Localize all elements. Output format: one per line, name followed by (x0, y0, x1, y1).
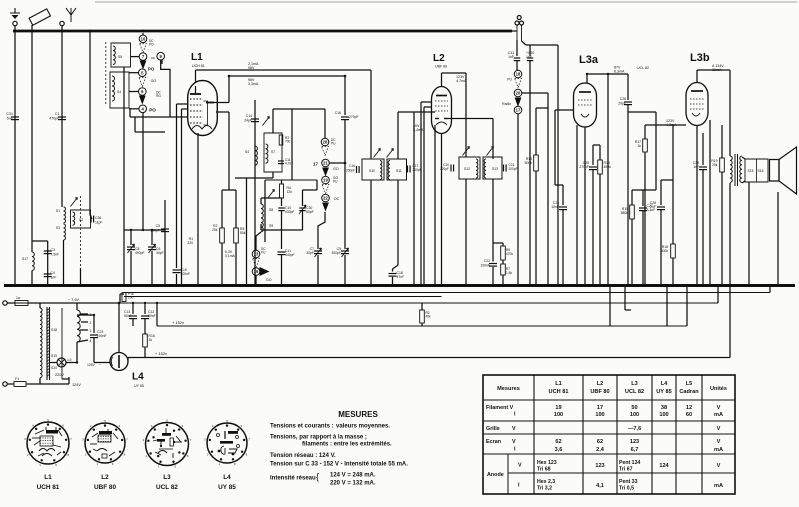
svg-text:100: 100 (595, 412, 604, 418)
svg-text:L1: L1 (191, 52, 203, 63)
wire secondary bottom (76, 342, 78, 362)
capacitor C36 (91, 216, 102, 225)
capacitor C31 (514, 40, 520, 61)
svg-text:1k: 1k (637, 144, 641, 148)
svg-text:19: 19 (323, 178, 328, 183)
svg-text:UCL 82: UCL 82 (637, 66, 649, 70)
wire T1 primary top (370, 70, 372, 159)
wire grid L3a (555, 110, 574, 185)
wire transformer B+ (729, 183, 731, 358)
wire (666, 286, 668, 327)
frame top edge (95, 1, 797, 3)
junction (702, 284, 705, 287)
junction (255, 284, 258, 287)
wire (135, 117, 165, 132)
switch contact 17 (514, 106, 522, 114)
table grid (483, 375, 735, 494)
junction (644, 284, 647, 287)
svg-text:47nF: 47nF (397, 275, 405, 279)
svg-text:UCL 82: UCL 82 (625, 389, 644, 395)
svg-text:124 V = 248 mA.: 124 V = 248 mA. (330, 473, 376, 479)
capacitor C26 20pF (618, 74, 632, 286)
wire node (32, 240, 48, 242)
svg-text:20pF: 20pF (618, 102, 626, 106)
svg-text:440pF: 440pF (285, 253, 295, 257)
label 124V (72, 383, 81, 387)
label 6,3V (225, 250, 236, 258)
label GO (266, 278, 272, 282)
wire (625, 286, 631, 311)
wire oscillator net (273, 109, 325, 180)
tube socket L1 UCH81 (24, 418, 72, 467)
junction (142, 284, 145, 287)
ferrite rod antenna (29, 9, 50, 25)
switch contact 19 (322, 176, 339, 184)
svg-text:6,7: 6,7 (631, 447, 639, 453)
junction (547, 284, 550, 287)
svg-text:270pF: 270pF (579, 165, 589, 169)
svg-text:Tri 68: Tri 68 (537, 467, 551, 473)
svg-text:mA: mA (714, 447, 723, 453)
svg-text:~ 7,6V: ~ 7,6V (68, 298, 80, 302)
junction (89, 30, 92, 33)
label GO (333, 167, 339, 171)
resistor R16 1k (143, 330, 155, 358)
trimmer arrow (71, 198, 78, 207)
wire S2 box bottom (80, 268, 82, 286)
junction (164, 284, 167, 287)
svg-text:Ecran: Ecran (486, 439, 501, 445)
junction (535, 284, 538, 287)
svg-text:Pent 134: Pent 134 (619, 460, 640, 466)
wire (77, 314, 94, 316)
wire L3b anode up (697, 70, 730, 83)
mains terminal 2 (3, 382, 7, 386)
table header row (497, 381, 727, 395)
tube L3a cathode hook (581, 114, 589, 117)
svg-text:L4: L4 (661, 381, 668, 387)
label Radio (502, 102, 511, 106)
label C30 1nF (526, 51, 534, 59)
wire T1 secondary bottom (393, 180, 399, 272)
capacitor C3 (44, 248, 59, 257)
label GO (151, 79, 157, 83)
label L3a (579, 54, 599, 66)
svg-text:1nF: 1nF (693, 165, 699, 169)
tube L2 diode plates (435, 118, 448, 120)
svg-text:Intensité réseau: Intensité réseau (270, 476, 316, 482)
tube L3b cathode hook (692, 113, 700, 116)
top bus wire (13, 30, 512, 33)
label L3b (690, 52, 710, 64)
wire L4 anode up (118, 303, 120, 353)
wire (129, 108, 131, 117)
svg-text:UBF 80: UBF 80 (435, 65, 447, 69)
junction (14, 284, 17, 287)
svg-text:450k: 450k (604, 165, 612, 169)
svg-text:+ 152v: + 152v (172, 320, 184, 325)
coil box S2 (71, 210, 91, 228)
svg-text:L4: L4 (132, 372, 144, 383)
svg-text:200pF: 200pF (346, 169, 355, 173)
switch wiper dashed (322, 185, 329, 194)
svg-text:Tension réseau : 124 V.: Tension réseau : 124 V. (270, 453, 336, 459)
switch wiper dashed (515, 79, 522, 88)
svg-text:UCL 82: UCL 82 (156, 484, 178, 491)
svg-text:L2: L2 (101, 474, 109, 481)
label +152V lower (155, 351, 167, 356)
switch wiper dashed (253, 259, 260, 268)
junction (245, 284, 248, 287)
svg-text:470k: 470k (506, 252, 513, 256)
svg-text:S2: S2 (79, 218, 83, 222)
wire (222, 189, 236, 191)
svg-text:S16: S16 (758, 169, 764, 173)
wire (536, 107, 548, 109)
resistor R21 40k (420, 303, 431, 326)
svg-text:C4: C4 (51, 271, 55, 275)
capacitor C16 270pF (335, 76, 359, 163)
svg-text:PU: PU (507, 78, 512, 82)
svg-text:123: 123 (630, 439, 639, 445)
junction (492, 284, 495, 287)
mains terminal 1 (3, 301, 7, 305)
svg-text:V: V (717, 405, 721, 411)
svg-text:24pF: 24pF (244, 119, 252, 123)
capacitor C30 (527, 45, 533, 61)
coil S9 (261, 218, 273, 232)
oscillator box (264, 133, 282, 172)
output transformer core (735, 154, 738, 186)
junction (344, 284, 347, 287)
label 17 (313, 162, 318, 167)
switch wiper (139, 96, 146, 105)
variable capacitor C8 (127, 230, 145, 286)
junction (180, 284, 183, 287)
svg-text:UCH 81: UCH 81 (192, 64, 205, 68)
svg-text:L3b: L3b (690, 52, 710, 64)
antenna symbol (66, 8, 76, 22)
svg-text:123: 123 (595, 463, 604, 469)
junction (672, 284, 675, 287)
junction (434, 284, 437, 287)
capacitor C11 box (278, 158, 293, 166)
resistor R18 500k (661, 125, 676, 286)
ground bus wire (4, 284, 795, 287)
capacitor C23 100uF (90, 315, 107, 363)
svg-text:PU: PU (261, 251, 266, 255)
svg-text:98V: 98V (248, 66, 255, 70)
tube L3b anode (691, 90, 703, 92)
switch contact 4 (139, 105, 156, 113)
wire T1 primary bottom (370, 180, 372, 286)
svg-text:22: 22 (323, 196, 328, 201)
wire T2 primary bottom (465, 179, 467, 286)
junction (440, 284, 443, 287)
fuse F1 (14, 377, 26, 387)
wire mains (7, 302, 120, 304)
svg-text:50nF: 50nF (148, 314, 156, 318)
wire (235, 177, 247, 179)
transformer secondary coil (77, 303, 80, 342)
transformer box edge (61, 308, 63, 379)
svg-text:40k: 40k (426, 315, 432, 319)
junction (696, 284, 699, 287)
svg-text:100pF: 100pF (150, 229, 160, 233)
label L2 socket (94, 474, 116, 491)
switch contact 13 (252, 247, 266, 258)
svg-text:L5: L5 (68, 358, 72, 362)
switch contact 5 (139, 69, 147, 77)
junction (660, 284, 663, 287)
coil S3 (56, 224, 66, 240)
wire (593, 144, 600, 146)
svg-text:220: 220 (187, 241, 193, 245)
svg-text:L1: L1 (555, 381, 562, 387)
svg-text:16: 16 (254, 269, 259, 274)
svg-text:13: 13 (254, 252, 259, 257)
coil S4 osc (245, 146, 258, 165)
junction (344, 75, 347, 78)
wire osc box bottom (247, 172, 274, 178)
tube L1 anode hexode (190, 86, 201, 94)
svg-text:124V: 124V (72, 383, 81, 387)
capacitor C7 30pF (306, 212, 325, 286)
junction (729, 284, 732, 287)
junction (562, 284, 565, 287)
svg-text:GO: GO (266, 278, 272, 282)
svg-text:Pent 33: Pent 33 (619, 479, 638, 485)
svg-text:38: 38 (661, 405, 667, 411)
svg-text:C26: C26 (620, 97, 626, 101)
wire switch drop (142, 113, 144, 230)
junction (156, 302, 158, 304)
resistor R17 1k (635, 125, 648, 286)
svg-text:100: 100 (128, 296, 134, 300)
switch contact 7 (139, 53, 147, 61)
switch wiper dashed (322, 147, 329, 156)
svg-text:oo: oo (151, 56, 155, 60)
svg-text:C22: C22 (484, 259, 490, 263)
svg-text:L3: L3 (163, 474, 171, 481)
svg-text:UCH 81: UCH 81 (549, 389, 569, 395)
text measurements notes (270, 424, 408, 487)
junction (721, 284, 724, 287)
wire (161, 60, 163, 64)
wire (609, 286, 611, 327)
wire (517, 61, 518, 70)
svg-text:2nF: 2nF (650, 205, 656, 209)
tube L1 grid3 box (204, 101, 208, 125)
svg-text:V: V (512, 426, 516, 432)
svg-text:S7: S7 (271, 150, 275, 154)
svg-text:GO: GO (333, 167, 339, 171)
switch contact 16 (252, 268, 260, 276)
svg-text:Grille: Grille (486, 426, 500, 432)
trimmer arrow (487, 147, 494, 156)
wire (502, 260, 504, 264)
svg-text:C14: C14 (246, 114, 252, 118)
svg-text:L2: L2 (433, 53, 445, 64)
label L1 (191, 52, 203, 63)
switch contact 9 (151, 52, 165, 60)
switch wiper (322, 203, 329, 212)
svg-text:S20: S20 (51, 366, 57, 370)
svg-text:L3: L3 (631, 381, 638, 387)
junction (502, 284, 505, 287)
coil box S4 (110, 72, 129, 108)
rectifier tube L4 (110, 353, 128, 371)
svg-text:C36: C36 (95, 216, 101, 220)
junction (592, 284, 595, 287)
capacitor C28 2uF (650, 180, 665, 286)
wire lamp (50, 362, 78, 364)
transformer core (47, 307, 50, 380)
capacitor C5 100pF (150, 200, 169, 286)
svg-text:S4: S4 (245, 150, 249, 154)
junction (123, 284, 126, 287)
secondary taps (77, 313, 92, 343)
wire (246, 178, 248, 286)
wire T2 secondary bottom (492, 179, 494, 286)
svg-text:62: 62 (555, 439, 561, 445)
speaker terminal box (745, 159, 768, 182)
resistor R19 20k (711, 125, 724, 286)
label UCH 81 (192, 64, 205, 68)
label -7,6V (68, 298, 80, 302)
switch wiper right (260, 267, 270, 276)
wire padder bottom (261, 224, 303, 230)
junction (317, 284, 320, 287)
svg-text:S13: S13 (492, 167, 498, 171)
switch wiper dashed (140, 44, 147, 53)
svg-text:2: 2 (90, 321, 92, 325)
wire (344, 163, 346, 249)
svg-text:S3: S3 (56, 226, 60, 230)
variable capacitor C6 (148, 230, 164, 286)
resistor R4 (280, 184, 293, 198)
wire (47, 241, 49, 286)
svg-text:1nF: 1nF (508, 55, 514, 59)
resistor R5 (234, 190, 246, 286)
capacitor C21 200pF (504, 163, 518, 172)
switch contact 10 (139, 33, 154, 47)
svg-text:Anode: Anode (487, 472, 504, 478)
tube L3a envelope (574, 83, 597, 127)
junction (175, 284, 178, 287)
svg-text:5nF: 5nF (7, 117, 14, 121)
wire T1 secondary top (397, 112, 399, 159)
svg-text:S17: S17 (22, 257, 28, 261)
capacitor C19 100nF (173, 268, 191, 276)
svg-text:3,6: 3,6 (555, 447, 563, 453)
capacitor C12 50uF (141, 303, 156, 330)
wire speaker down (749, 182, 778, 286)
capacitor C20 220pF (440, 163, 454, 172)
svg-text:PO: PO (148, 67, 155, 72)
svg-text:L2: L2 (597, 381, 604, 387)
variable capacitor C9 500pF (331, 247, 349, 286)
IF transformer T1 primary box (362, 159, 384, 180)
wire branch (493, 243, 503, 246)
wire (548, 45, 558, 286)
junction (413, 284, 416, 287)
coil S8 (261, 204, 273, 218)
resistor R2 (212, 190, 224, 286)
junction (280, 284, 283, 287)
svg-text:MESURES: MESURES (338, 410, 378, 419)
svg-text:PO: PO (149, 43, 154, 47)
svg-text:S8: S8 (269, 208, 273, 212)
svg-text:Tensions et courants :: Tensions et courants : (270, 424, 334, 430)
junction (420, 284, 423, 287)
svg-text:UCH 81: UCH 81 (37, 484, 60, 491)
tube L2 anode (436, 95, 447, 97)
svg-text:430pF: 430pF (285, 210, 295, 214)
coil box S5 (111, 43, 131, 67)
label A 134V 33mA (712, 64, 724, 72)
svg-text:1: 1 (90, 329, 92, 333)
svg-text:PU: PU (333, 180, 338, 184)
wire coupling (628, 112, 656, 190)
wire T2 primary top (465, 73, 467, 157)
svg-text:33mA: 33mA (712, 68, 722, 72)
label 126V (87, 362, 102, 367)
tube L1 filament (192, 126, 212, 130)
svg-text:1k: 1k (149, 338, 153, 342)
tube L2 envelope (432, 87, 452, 134)
svg-text:1,5k: 1,5k (506, 271, 512, 275)
svg-text:11pF: 11pF (95, 221, 102, 225)
svg-text:Tension sur C 33 - 152 V - Int: Tension sur C 33 - 152 V - Intensité tot… (270, 462, 408, 468)
label L3 socket (156, 474, 178, 491)
junction (31, 284, 34, 287)
resistor R15 580k (621, 190, 635, 286)
tube L3a anode (579, 91, 591, 93)
svg-text:V: V (717, 426, 721, 432)
resistor R14 450k (598, 145, 611, 286)
svg-text:220pF: 220pF (440, 167, 449, 171)
output transformer secondary (740, 156, 742, 182)
junction (465, 284, 468, 287)
capacitor C14 24pF (244, 100, 259, 286)
svg-text:21: 21 (323, 161, 328, 166)
svg-text:100: 100 (659, 412, 668, 418)
svg-text:470pF: 470pF (49, 117, 60, 121)
svg-text:17: 17 (313, 162, 318, 167)
wire (742, 157, 745, 183)
svg-text:62: 62 (597, 439, 603, 445)
label 40V 3,4mA (413, 124, 424, 132)
switch contact 6 (139, 88, 162, 98)
label PO (148, 67, 155, 72)
wire L1 hexode anode up (196, 70, 372, 82)
tube socket L2 UBF80 (82, 419, 128, 466)
junction (228, 75, 231, 78)
phono connector (515, 16, 524, 26)
capacitor C24 10nF (551, 185, 567, 286)
switch contact 20 (514, 89, 522, 97)
label 123V 4,7mA (456, 75, 467, 83)
svg-text:30pF: 30pF (156, 251, 164, 255)
trimmer arrow (268, 190, 275, 199)
svg-text:270pF: 270pF (349, 115, 359, 119)
svg-text:26: 26 (323, 140, 328, 145)
rail wire +152V upper (157, 325, 687, 327)
switch contact 26 (321, 109, 336, 146)
coil S7 (266, 144, 276, 163)
switch contact 18 (507, 70, 522, 81)
